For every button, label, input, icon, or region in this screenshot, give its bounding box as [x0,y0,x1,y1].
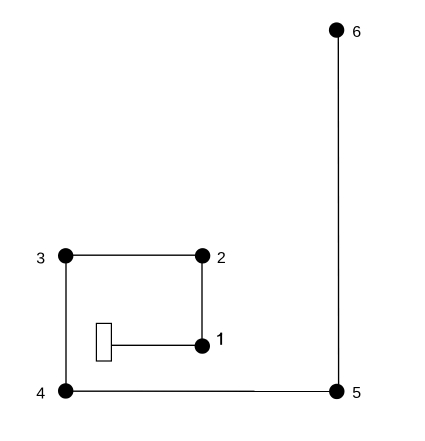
wire 4-5 (horizontal bottom) [66,390,337,392]
node 3 [58,248,73,263]
label 1 [217,333,222,345]
svg-text:3: 3 [36,250,45,267]
node 6 [329,22,344,37]
svg-text:6: 6 [352,24,361,41]
wire 3-4 (vertical left) [65,256,67,391]
wire component-1 (horizontal) [112,344,203,346]
wire 6-5 (vertical right) [337,30,339,391]
node 1 [195,338,210,353]
component rectangle [96,323,111,361]
node 2 [195,248,210,263]
node 5 [329,384,344,399]
wire 3-2 (horizontal top) [66,254,203,256]
svg-text:4: 4 [36,385,45,402]
wire 2-1 (vertical middle) [201,256,203,346]
node 4 [58,383,73,398]
svg-text:2: 2 [217,250,226,267]
svg-text:5: 5 [352,385,361,402]
